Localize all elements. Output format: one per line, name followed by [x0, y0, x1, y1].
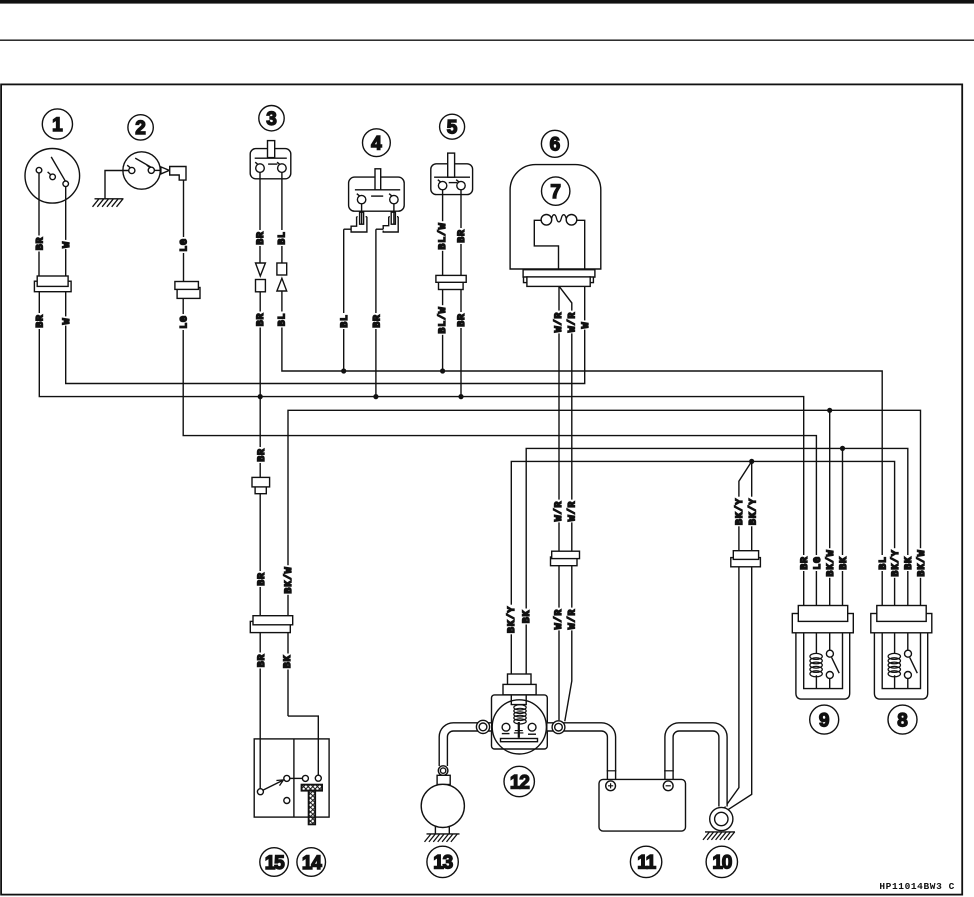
component 4: switch: [349, 169, 405, 224]
junction box 14/15: [254, 739, 329, 817]
svg-text:W: W: [581, 322, 592, 329]
wire: comp5 BL/W drop: [442, 290, 444, 372]
svg-text:LG: LG: [813, 556, 824, 570]
connector (BK/Y pair): [731, 558, 761, 567]
svg-text:BR: BR: [257, 572, 268, 586]
legs and ground (13): [434, 827, 436, 834]
headlamp base: [523, 270, 595, 277]
wire: comp4 BL drop: [343, 229, 345, 371]
component 1: ignition switch: [25, 149, 80, 277]
wire labels: [34, 236, 44, 252]
svg-text:W/R: W/R: [553, 501, 565, 521]
wire: comp4 BR drop: [375, 229, 377, 396]
wire: comp1 W to W bus to headlamp W: [66, 286, 585, 383]
component 6: headlamp housing: [510, 165, 601, 269]
svg-text:1: 1: [52, 115, 63, 136]
collar neck of 13: [437, 775, 450, 784]
wire: comp3 BR down to junction box terminal: [259, 292, 261, 789]
comp3 diode symbols: [256, 263, 266, 276]
component 2: switch: [105, 152, 160, 199]
component 3: switch: [250, 141, 291, 263]
connector (BR bullet): [255, 485, 266, 494]
wire: BK/W junction-box branch to terminal: [288, 716, 318, 775]
svg-text:W/R: W/R: [553, 609, 565, 629]
wire: BK branch down to relay9 pin4: [842, 448, 844, 606]
svg-text:2: 2: [135, 118, 146, 139]
svg-text:BK: BK: [283, 655, 294, 669]
wire: BK/W bus from junction box to relay8 pin4: [288, 410, 921, 716]
svg-text:8: 8: [897, 710, 908, 731]
comp4 right terminal boot: [383, 217, 398, 232]
wire: BK bus from ignition coil to relay8 pin3: [526, 448, 908, 680]
svg-text:W/R: W/R: [567, 312, 579, 332]
relay 9 inner pins: [804, 633, 843, 689]
coil left ring terminal: [476, 720, 489, 733]
svg-text:BK/W: BK/W: [916, 549, 928, 576]
svg-text:6: 6: [550, 135, 561, 156]
connector (comp2 LG): [177, 288, 200, 299]
ignition coil circle: [492, 700, 546, 754]
ignition coil 12 body: [492, 695, 548, 749]
svg-text:BK/W: BK/W: [283, 566, 295, 593]
svg-text:15: 15: [265, 853, 285, 874]
svg-text:BK: BK: [522, 610, 533, 624]
top thick rule: [0, 0, 974, 4]
svg-text:BR: BR: [256, 313, 267, 327]
component 5: switch: [431, 153, 473, 275]
ring connector above 13: [438, 766, 448, 776]
wire: comp2 LG to LG bus to relay9 pin2: [183, 298, 816, 606]
svg-text:W/R: W/R: [567, 609, 579, 629]
svg-text:BL/W: BL/W: [437, 306, 449, 333]
svg-text:LG: LG: [180, 238, 191, 252]
svg-text:BK/Y: BK/Y: [747, 498, 759, 525]
connector (BR/BK pair to junction box): [250, 621, 290, 632]
battery 11: [599, 779, 686, 831]
svg-text:BK/Y: BK/Y: [890, 549, 902, 576]
svg-text:BL: BL: [278, 231, 289, 245]
svg-text:W: W: [62, 241, 73, 248]
relay 9 body: [796, 633, 850, 699]
coil right ring terminal: [552, 721, 565, 734]
wire: comp1 BR to BR bus to relay9 pin1: [39, 291, 803, 606]
connector (comp1 pair): [34, 281, 71, 292]
svg-text:11: 11: [637, 853, 656, 874]
relay 8 switch contacts: [907, 633, 909, 689]
spark lead tube right to battery: [548, 727, 612, 781]
coil internals: [514, 705, 526, 710]
svg-text:12: 12: [510, 772, 529, 793]
circle 7 label (bulb): [542, 177, 570, 205]
svg-text:BL: BL: [879, 556, 890, 570]
svg-text:BR: BR: [257, 448, 268, 462]
switch arrow 15: [263, 781, 282, 791]
svg-text:BK: BK: [904, 556, 915, 570]
svg-text:W/R: W/R: [553, 312, 565, 332]
ground (comp2): [95, 198, 124, 200]
relay 8 body: [874, 633, 927, 699]
svg-text:7: 7: [550, 182, 561, 203]
svg-text:BK/W: BK/W: [825, 549, 837, 576]
svg-text:LG: LG: [180, 315, 191, 329]
battery negative tube to ground 10: [669, 727, 723, 807]
svg-text:BK: BK: [839, 556, 850, 570]
svg-text:10: 10: [712, 853, 731, 874]
svg-text:W/R: W/R: [567, 501, 579, 521]
svg-text:BR: BR: [36, 314, 47, 328]
svg-text:BK/Y: BK/Y: [506, 606, 518, 633]
svg-text:BR: BR: [36, 237, 47, 251]
svg-text:BR: BR: [457, 229, 468, 243]
box wires re-entry: [259, 739, 261, 789]
svg-text:BR: BR: [257, 654, 268, 668]
svg-text:BL/W: BL/W: [437, 222, 449, 249]
wire: comp3 BL to BL bus to relay8 pin1: [282, 291, 882, 606]
connector (comp5 pair): [439, 281, 464, 289]
svg-text:BR: BR: [457, 313, 468, 327]
wire: headlamp W/R right drop to ignition coil ring: [559, 286, 572, 721]
component 13 round body: [421, 784, 464, 827]
ignition coil 12 connector: [508, 674, 532, 687]
junction dots: [341, 368, 346, 373]
relay 8 inner pins: [882, 633, 920, 689]
svg-text:HP11014BW3 C: HP11014BW3 C: [879, 881, 955, 892]
comp4 left terminal boot: [351, 217, 367, 232]
svg-text:BR: BR: [256, 231, 267, 245]
svg-text:BR: BR: [800, 556, 811, 570]
bulb filament and leads: [541, 215, 552, 226]
wire: BK/Y bus from ignition coil to relay8 pin2: [511, 461, 894, 680]
svg-text:13: 13: [433, 853, 452, 874]
terminals inside box: [257, 789, 263, 795]
svg-text:BR: BR: [372, 314, 383, 328]
svg-text:4: 4: [371, 134, 382, 155]
svg-text:5: 5: [447, 118, 458, 139]
svg-text:9: 9: [819, 710, 830, 731]
comp2 plug arrow and boot: [161, 167, 169, 174]
wire: headlamp W/R left drop to ignition coil ring: [558, 286, 560, 720]
wire: comp5 BR drop: [460, 290, 462, 397]
tube joint ticks: [607, 770, 617, 772]
relay 9 switch contacts: [829, 633, 831, 689]
wire: BK/W branch down to relay9 pin3: [829, 410, 831, 606]
ground ring 10: [710, 807, 733, 830]
svg-text:BL: BL: [278, 313, 289, 327]
svg-text:BK/Y: BK/Y: [734, 498, 746, 525]
wire: BK/Y branch pair down to ground 10: [728, 461, 752, 809]
thin rule: [0, 39, 974, 41]
svg-text:W: W: [62, 318, 73, 325]
svg-text:BL: BL: [340, 314, 351, 328]
svg-text:14: 14: [302, 853, 322, 874]
connector (W/R pair): [551, 557, 578, 566]
svg-text:3: 3: [266, 109, 277, 130]
spark lead tube left to plug 13: [443, 727, 491, 766]
